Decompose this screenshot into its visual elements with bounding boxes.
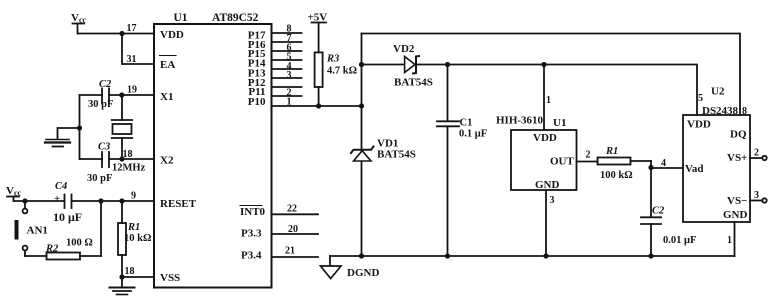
svg-text:22: 22: [287, 204, 297, 215]
svg-text:Vad: Vad: [685, 163, 704, 175]
wire VS+ pin2: [750, 156, 767, 160]
node button junction: [22, 198, 27, 203]
svg-text:C2: C2: [99, 79, 112, 90]
wire VDD pin17: [78, 33, 155, 35]
wire X1 pin19: [80, 94, 155, 96]
svg-text:GND: GND: [535, 179, 560, 191]
svg-text:R2: R2: [45, 244, 59, 255]
node X2 junction: [119, 156, 124, 161]
node railB/HIH pin1 junction: [541, 62, 546, 67]
svg-text:1: 1: [727, 235, 732, 246]
svg-text:C3: C3: [98, 142, 110, 153]
IC U1 AT89C52: [154, 12, 272, 288]
svg-text:GND: GND: [723, 209, 748, 221]
node trunk/P10 junction: [359, 103, 364, 108]
wire rail A (top, to DQ): [362, 34, 741, 116]
svg-text:VSS: VSS: [160, 272, 180, 284]
wire P3.3 pin20: [272, 233, 319, 235]
wire rail B (to pin5 of U2): [362, 65, 698, 116]
svg-text:VS−: VS−: [727, 195, 747, 207]
svg-text:AN1: AN1: [27, 225, 48, 237]
svg-text:2: 2: [754, 148, 759, 159]
svg-text:U1: U1: [174, 12, 188, 24]
wire VSS pin18: [122, 276, 154, 278]
resistor R1 10k: [118, 201, 151, 277]
svg-text:U2: U2: [711, 86, 725, 98]
svg-text:DQ: DQ: [730, 129, 747, 141]
wire P3.4 pin21: [272, 256, 319, 258]
svg-text:R3: R3: [326, 54, 339, 65]
svg-text:18: 18: [125, 266, 135, 277]
diode VD1 BAT54S: [351, 138, 416, 162]
svg-text:10 kΩ: 10 kΩ: [124, 233, 151, 244]
svg-text:P3.4: P3.4: [241, 250, 262, 262]
diode VD2 BAT54S: [393, 43, 433, 89]
power Vcc (reset): [6, 185, 22, 201]
wire HIH pin3 GND: [545, 190, 547, 256]
wire X2 pin18: [80, 158, 155, 160]
svg-text:C4: C4: [55, 181, 67, 192]
svg-text:18: 18: [123, 149, 133, 160]
wire HIH pin2 OUT: [577, 161, 598, 163]
svg-text:4.7 kΩ: 4.7 kΩ: [327, 66, 357, 77]
wire HIH pin1: [543, 65, 545, 131]
svg-text:30 pF: 30 pF: [88, 99, 113, 110]
svg-text:P3.3: P3.3: [241, 228, 262, 240]
svg-text:VDD: VDD: [533, 132, 557, 144]
ground (crystal): [45, 128, 80, 147]
svg-text:HIH-3610: HIH-3610: [496, 115, 544, 127]
IC U2 DS2438: [683, 86, 750, 223]
svg-text:19: 19: [127, 85, 137, 96]
wire P10 pin1 net: [272, 105, 362, 107]
svg-text:OUT: OUT: [550, 156, 575, 168]
node trunk/railB junction: [359, 62, 364, 67]
wire EA pin31: [122, 34, 154, 65]
svg-text:X2: X2: [160, 155, 174, 167]
power Vcc top-left: [71, 12, 87, 34]
wire RESET pin9: [14, 200, 155, 202]
svg-text:10 μF: 10 μF: [53, 210, 82, 224]
svg-text:VDD: VDD: [160, 29, 184, 41]
capacitor C4 10uF: [53, 181, 82, 224]
svg-text:C1: C1: [460, 118, 473, 129]
svg-text:21: 21: [285, 246, 295, 257]
node rail/trunk junction: [359, 253, 364, 258]
svg-text:3: 3: [550, 195, 555, 206]
node VSS junction: [119, 274, 124, 279]
node R3 bottom junction: [316, 103, 321, 108]
capacitor C3 30pF: [87, 142, 112, 185]
svg-text:12MHz: 12MHz: [112, 163, 146, 174]
svg-text:BAT54S: BAT54S: [394, 77, 433, 89]
wire crystal left loop: [79, 95, 81, 159]
svg-text:100 kΩ: 100 kΩ: [600, 170, 633, 181]
svg-text:31: 31: [127, 54, 137, 65]
wire VS- pin3: [750, 198, 767, 202]
svg-text:2: 2: [586, 150, 591, 161]
svg-text:0.01 μF: 0.01 μF: [663, 235, 696, 246]
wire U2 GND pin1: [734, 222, 736, 256]
svg-text:EA: EA: [160, 59, 175, 71]
wire trunk vertical (P10 to rails and DGND): [361, 34, 363, 257]
capacitor C2 0.01uF: [641, 168, 696, 257]
node C4/R2 right junction: [98, 198, 103, 203]
svg-text:RESET: RESET: [160, 198, 197, 210]
power +5V: [308, 12, 328, 53]
wire DGND rail: [330, 255, 735, 257]
capacitor C2 30pF: [88, 79, 113, 110]
svg-text:+: +: [54, 193, 60, 205]
pushbutton AN1: [15, 201, 48, 256]
svg-text:4: 4: [661, 158, 666, 169]
crystal 12MHz: [112, 95, 146, 174]
svg-text:R1: R1: [127, 222, 140, 233]
svg-text:VDD: VDD: [687, 119, 711, 131]
wire to U2 Vad pin4: [651, 167, 683, 169]
svg-text:C2: C2: [652, 206, 665, 217]
svg-text:100 Ω: 100 Ω: [66, 238, 93, 249]
svg-text:INT0: INT0: [240, 206, 266, 218]
node X1 junction: [119, 92, 124, 97]
resistor R1 100k: [598, 146, 652, 181]
svg-text:17: 17: [127, 23, 137, 34]
wire INT0 pin22: [272, 213, 319, 215]
svg-text:R1: R1: [605, 146, 618, 157]
svg-text:U1: U1: [553, 117, 566, 129]
node R1 top junction: [119, 198, 124, 203]
svg-text:9: 9: [131, 191, 136, 202]
svg-text:X1: X1: [160, 91, 173, 103]
svg-text:20: 20: [288, 224, 298, 235]
svg-text:8: 8: [742, 106, 747, 117]
svg-text:30 pF: 30 pF: [87, 173, 112, 184]
svg-text:VD2: VD2: [393, 43, 415, 55]
node rail/C2 junction: [648, 253, 653, 258]
svg-text:VS+: VS+: [727, 152, 747, 164]
pin numbers 8..1: [287, 24, 292, 108]
IC right port stubs P17-P11 pins 8..2: [272, 33, 302, 96]
node rail/HIH gnd junction: [543, 253, 548, 258]
node VDD/EA junction: [119, 31, 124, 36]
sensor U1 HIH-3610: [496, 115, 577, 192]
node pin4 junction: [648, 165, 653, 170]
svg-text:3: 3: [287, 70, 292, 81]
ground (VSS): [110, 277, 135, 295]
svg-text:DGND: DGND: [347, 267, 379, 279]
svg-text:AT89C52: AT89C52: [212, 12, 259, 24]
node ground stub junction: [77, 125, 82, 130]
node rail/C1 junction: [445, 253, 450, 258]
resistor R2 100ohm: [25, 201, 101, 260]
svg-text:3: 3: [754, 190, 759, 201]
svg-text:1: 1: [546, 95, 551, 106]
svg-text:5: 5: [698, 93, 703, 104]
svg-text:0.1 μF: 0.1 μF: [459, 129, 487, 140]
svg-text:P10: P10: [248, 96, 266, 108]
node railB/C1 junction: [445, 62, 450, 67]
svg-text:V: V: [6, 185, 14, 197]
ground DGND symbol: [321, 256, 380, 279]
svg-text:BAT54S: BAT54S: [377, 149, 416, 161]
capacitor C1 0.1uF: [437, 65, 487, 257]
svg-text:V: V: [71, 12, 79, 24]
resistor R3 4.7k: [315, 52, 357, 106]
